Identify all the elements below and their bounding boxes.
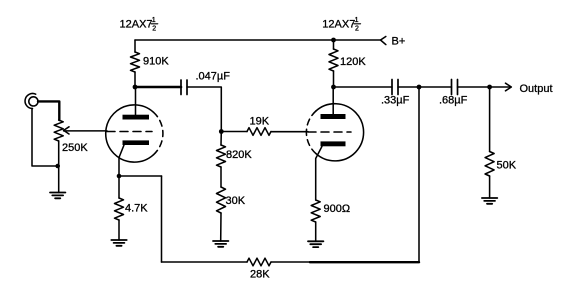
wire U2 plate lead [332, 87, 334, 114]
svg-text:.047µF: .047µF [196, 71, 231, 83]
wire feedback bottom left [162, 261, 248, 263]
wire feedback bottom right thick [310, 261, 419, 263]
wire jack tip to pot top [38, 101, 59, 120]
svg-text:50K: 50K [497, 159, 517, 171]
svg-text:1: 1 [355, 17, 359, 24]
capacitor C2 .33uF [392, 80, 398, 95]
U1 plate [123, 115, 150, 120]
wire B+ rail [135, 39, 381, 41]
U1 grid (dashed) [107, 131, 152, 133]
wire U1 cathode junction to feedback drop [119, 175, 162, 177]
capacitor C3 .68uF [452, 80, 458, 95]
node B+ rail / 120K junction [331, 38, 336, 43]
wire jack sleeve to ground node [32, 109, 58, 167]
svg-text:12AX7: 12AX7 [322, 19, 355, 31]
ground (50K) [482, 198, 497, 204]
svg-text:30K: 30K [226, 195, 246, 207]
wire U2 cathode lead [316, 146, 322, 200]
wire output stub [490, 86, 511, 88]
U2 grid (dashed) [308, 131, 351, 133]
node output junction [487, 85, 492, 90]
resistor R 19K [221, 128, 308, 136]
svg-text:2: 2 [355, 26, 359, 33]
input jack J1 [25, 94, 38, 109]
svg-text:19K: 19K [250, 116, 270, 128]
svg-text:250K: 250K [62, 142, 88, 154]
resistor R 820K [217, 132, 226, 188]
ground (820K/30K divider) [213, 241, 228, 247]
svg-text:820K: 820K [226, 149, 252, 161]
tube label 12AX7 1/2 [120, 17, 157, 33]
svg-text:B+: B+ [392, 35, 406, 47]
svg-text:900Ω: 900Ω [324, 203, 351, 215]
capacitor C1 .047uF [181, 80, 187, 95]
ground (input) [50, 193, 65, 199]
svg-text:910K: 910K [143, 56, 169, 68]
potentiometer 250K [54, 120, 69, 141]
wire U1 cathode lead [119, 145, 124, 176]
ground (4.7K) [111, 240, 126, 246]
node feedback takeoff [417, 85, 422, 90]
output terminal arrow [506, 83, 512, 91]
wire C3 to output node [458, 86, 490, 88]
svg-text:12AX7: 12AX7 [120, 19, 153, 31]
U1 cathode [123, 140, 150, 145]
resistor R 28K [247, 258, 271, 266]
ground (900 ohm) [308, 241, 323, 247]
wire feedback right vertical [418, 87, 420, 262]
wire pot wiper to tube V1 grid [64, 130, 107, 132]
resistor R 50K [485, 87, 494, 198]
resistor R 910K [131, 40, 140, 87]
svg-text:.33µF: .33µF [381, 95, 410, 107]
resistor R 4.7K [115, 176, 124, 240]
svg-text:28K: 28K [250, 269, 270, 281]
svg-text:1: 1 [152, 17, 156, 24]
node U1 plate junction [133, 85, 138, 90]
resistor R 120K [329, 40, 338, 87]
wire feedback left vertical [161, 176, 163, 262]
U2 cathode [321, 141, 346, 146]
wire C2 to feedback node [398, 86, 419, 88]
svg-text:.68µF: .68µF [439, 95, 468, 107]
node U1 cathode junction [117, 174, 122, 179]
triode U2 (12AX7 second half) envelope [306, 104, 363, 161]
svg-text:2: 2 [152, 26, 156, 33]
wire U1 plate lead [135, 87, 137, 115]
wire pot bottom to ground [58, 141, 60, 193]
B+ terminal arrow [381, 37, 386, 45]
node A (C1 / 820K / 19K junction) [219, 129, 224, 134]
node U2 plate junction [331, 85, 336, 90]
wire feedback bottom right [271, 261, 310, 263]
resistor R 30K [217, 187, 226, 241]
wire feedback node to C3 [419, 86, 452, 88]
svg-text:120K: 120K [340, 56, 366, 68]
svg-text:4.7K: 4.7K [125, 202, 148, 214]
node pot ground junction [55, 164, 60, 169]
resistor R 900 ohm [311, 200, 320, 241]
wire C1 to node A [187, 87, 221, 132]
triode U1 (12AX7 first half) envelope [106, 105, 163, 162]
svg-text:Output: Output [520, 83, 553, 95]
wire U1 plate to C1 [135, 86, 181, 89]
wire U2 plate to C2 [334, 86, 393, 88]
tube label 12AX7 1/2 (second) [322, 17, 359, 33]
U2 plate [321, 114, 346, 119]
